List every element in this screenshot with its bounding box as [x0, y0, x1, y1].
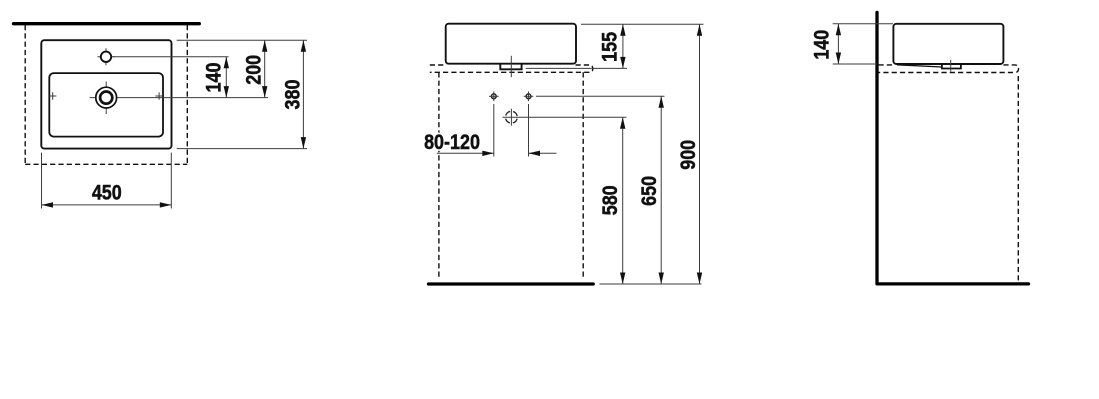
drain outer ring (plan): [96, 87, 117, 108]
dimension 580 (waste height): [620, 117, 625, 284]
svg-text:580: 580: [599, 185, 623, 215]
basin body (front): [446, 24, 576, 64]
waste hole dashed circle: [506, 109, 518, 126]
top extension line (basin rim to 900 dim): [581, 23, 704, 25]
floor line thick (front): [429, 282, 594, 285]
rim extension line (side): [833, 23, 893, 25]
dimension 380 (basin depth): [301, 40, 306, 148]
drain centerline (front): [510, 56, 512, 77]
drain centerline (side): [950, 60, 952, 72]
waste hole extension line to 580 dim: [503, 116, 627, 118]
basin bottom slope line (side): [897, 65, 942, 67]
svg-text:450: 450: [92, 181, 122, 205]
basin body (side): [893, 24, 1003, 64]
label 200: [242, 55, 266, 85]
drain inner ring (plan): [100, 92, 112, 104]
right bowl cross mark: [155, 92, 162, 99]
dimension 140 (basin height, side): [836, 24, 841, 64]
counter extension line (155 bottom): [526, 67, 627, 69]
svg-text:155: 155: [598, 32, 622, 62]
left fixing hole: [489, 92, 499, 102]
label 580: [599, 185, 623, 215]
right fixing hole: [524, 92, 534, 102]
label 450: [92, 181, 122, 205]
label 140 (plan): [202, 62, 226, 92]
svg-text:140: 140: [810, 30, 834, 60]
wall and floor thick line (side): [877, 12, 1029, 284]
dimension 140 (faucet to drain): [224, 57, 229, 98]
drain fitting (side): [942, 65, 961, 69]
drain centerline horizontal / extension to 200 dim: [90, 97, 269, 99]
svg-text:380: 380: [281, 79, 305, 109]
faucet hole (plan): [98, 48, 115, 65]
counter extension line (side): [833, 63, 877, 65]
dimension 80-120 (hole spacing, arrows outside): [437, 151, 557, 156]
label 900: [677, 140, 701, 170]
dashed countertop outline (plan): [25, 25, 187, 164]
dimension 900 (rim height): [697, 24, 702, 284]
faucet extension line to 140 dim: [113, 56, 229, 58]
drain centerline vertical: [105, 82, 107, 115]
fixing holes extension line to 650 dim: [536, 95, 665, 97]
dimension 650 (fixing hole height): [659, 96, 664, 284]
svg-text:80-120: 80-120: [424, 131, 480, 155]
pedestal dashed right (side): [1017, 76, 1019, 283]
pedestal dashed right (front): [582, 72, 584, 279]
label 140 (side): [810, 30, 834, 60]
counter slab dashed (side): [879, 65, 1019, 73]
bottom extension line (basin bottom edge) for 380: [177, 148, 307, 150]
dimension 200 (top edge to drain): [262, 40, 267, 97]
drain fitting (front): [500, 64, 521, 69]
label 155: [598, 32, 622, 62]
dimension 450 (basin width): [42, 202, 172, 207]
wall line (plan view): [14, 22, 200, 25]
dimension 155 (rim above counter): [620, 24, 625, 68]
label 380: [281, 79, 305, 109]
hole drop line right: [528, 104, 530, 157]
label 80-120: [421, 133, 483, 151]
svg-text:900: 900: [677, 140, 701, 170]
basin outer rim (plan): [41, 40, 171, 148]
left bowl cross mark: [49, 92, 56, 99]
counter slab dashed (front): [430, 65, 593, 72]
top extension line (basin top edge): [177, 39, 307, 41]
floor extension line (front): [600, 283, 702, 285]
svg-text:140: 140: [202, 62, 226, 92]
pedestal dashed left (front): [438, 72, 440, 279]
basin inner bowl (plan): [49, 73, 163, 137]
450 extension line right: [170, 153, 172, 209]
450 extension line left: [41, 153, 43, 209]
hole drop line left: [493, 104, 495, 157]
svg-text:650: 650: [638, 176, 662, 206]
svg-text:200: 200: [242, 55, 266, 85]
label 650: [638, 176, 662, 206]
